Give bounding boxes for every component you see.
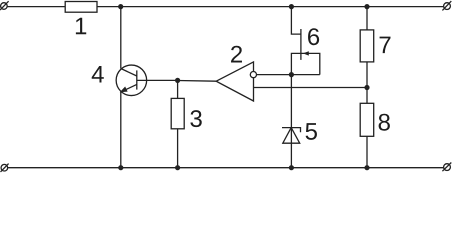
wire bottom rail bbox=[7, 167, 444, 169]
label 6 bbox=[308, 28, 319, 45]
label 3 bbox=[190, 110, 201, 127]
label 7 bbox=[380, 37, 391, 54]
label 5 bbox=[306, 123, 317, 140]
resistor R8 bbox=[360, 103, 374, 136]
label 2 bbox=[231, 46, 242, 63]
node J: R8 / bottom rail junction bbox=[364, 165, 369, 170]
node C: base / R3 / op-amp output junction bbox=[175, 78, 180, 83]
wire R7 top lead bbox=[366, 7, 368, 30]
node G: zener / bottom rail junction bbox=[289, 165, 294, 170]
op-amp U2 bbox=[216, 62, 256, 101]
wire R3 bottom lead bbox=[177, 129, 179, 168]
node E: top rail / FET drain junction bbox=[289, 4, 294, 9]
node I: divider midpoint junction bbox=[364, 85, 369, 90]
resistor R1 bbox=[65, 2, 97, 13]
wire zener anode lead bbox=[290, 128, 292, 168]
label 1 bbox=[76, 18, 86, 35]
node H: top rail / R7 junction bbox=[364, 4, 369, 9]
transistor VT6 (FET) bbox=[291, 7, 319, 75]
wire emitter lead bbox=[120, 92, 122, 168]
wire op-amp output bbox=[178, 80, 217, 83]
terminal bottom-right bbox=[442, 163, 451, 172]
wire R7 bottom lead bbox=[366, 62, 368, 103]
node A: top rail / collector junction bbox=[118, 4, 123, 9]
label 4 bbox=[92, 66, 104, 83]
terminal top-left bbox=[0, 1, 9, 10]
node B: emitter / bottom rail junction bbox=[118, 165, 123, 170]
terminal top-right bbox=[442, 1, 451, 10]
wire R3 top lead bbox=[177, 80, 179, 98]
resistor R3 bbox=[171, 98, 184, 128]
wire zener cathode lead bbox=[290, 75, 292, 128]
wire collector lead bbox=[120, 7, 122, 69]
node F: gate / inverting input / zener junction bbox=[289, 72, 294, 77]
resistor R7 bbox=[360, 30, 374, 62]
wire inverting input to gate node bbox=[257, 74, 320, 76]
label 8 bbox=[379, 114, 390, 131]
transistor Q4 bbox=[116, 65, 147, 96]
zener D5 bbox=[282, 128, 301, 144]
node D: R3 / bottom rail junction bbox=[175, 165, 180, 170]
wire R8 bottom lead bbox=[366, 136, 368, 167]
wire top rail bbox=[7, 6, 444, 8]
wire base lead bbox=[137, 79, 178, 81]
wire non-inverting input to divider bbox=[254, 87, 368, 89]
terminal bottom-left bbox=[1, 164, 9, 172]
